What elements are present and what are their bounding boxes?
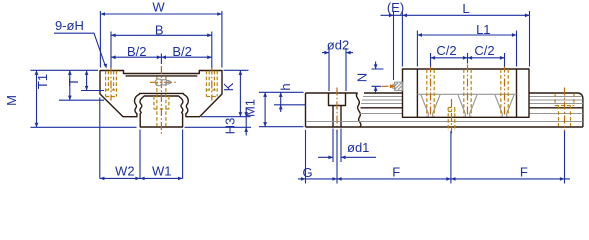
dimension L <box>402 1 529 67</box>
hole 3 centerline <box>504 65 506 117</box>
dimension T <box>66 70 104 90</box>
dimension T1 <box>35 70 104 100</box>
svg-text:G: G <box>302 165 312 180</box>
svg-text:(E): (E) <box>387 0 404 15</box>
label 9-oH with leader <box>54 18 107 69</box>
svg-text:N: N <box>355 73 370 82</box>
svg-text:F: F <box>520 165 528 180</box>
svg-text:W2: W2 <box>115 164 135 179</box>
dimension W (left view top) <box>100 0 221 68</box>
left wing hole centerline <box>110 67 112 101</box>
rail hole centerline (left view) <box>160 66 162 136</box>
svg-text:B/2: B/2 <box>172 44 192 59</box>
svg-text:K: K <box>221 82 236 91</box>
rail sectioned end (side view left) <box>306 93 358 127</box>
dimensions G F F (bottom) <box>298 130 570 184</box>
right wing hole centerline <box>211 67 213 101</box>
svg-text:ød1: ød1 <box>347 140 369 155</box>
dimension od1 <box>318 129 376 163</box>
grease nipple centerline horizontal (left view) <box>150 81 176 83</box>
dimension h <box>274 83 306 112</box>
dimension L1 <box>417 22 516 66</box>
rail mounting hole hidden lines (left view) <box>154 77 169 128</box>
dimension od2 <box>322 38 353 92</box>
svg-text:L1: L1 <box>476 22 490 37</box>
rail hole at right end (hidden) <box>555 88 574 134</box>
right wing bolt hole (hidden lines) <box>206 71 217 97</box>
svg-text:W: W <box>152 0 165 15</box>
ball guide funnel 1 (side view) <box>421 95 440 117</box>
dimensions B/2 B/2 <box>111 44 212 64</box>
block side view outline <box>403 69 530 117</box>
svg-text:C/2: C/2 <box>474 43 494 58</box>
rail hole under block (hidden) <box>448 99 455 134</box>
dimension M1 <box>243 92 304 126</box>
svg-text:H3: H3 <box>223 118 238 135</box>
ball guide funnel 2 <box>458 95 477 117</box>
dimension K (right of left view) <box>201 70 251 116</box>
svg-text:9-øH: 9-øH <box>55 18 84 33</box>
rail section hole centerline <box>336 88 338 134</box>
svg-text:M1: M1 <box>243 99 258 117</box>
svg-text:C/2: C/2 <box>436 43 456 58</box>
dimension (E) <box>381 0 405 80</box>
dimensions W2 W1 (left view bottom) <box>100 98 183 181</box>
hole 2 centerline <box>467 65 469 117</box>
svg-text:ød2: ød2 <box>327 38 349 53</box>
dimension N <box>355 62 384 95</box>
hole 1 centerline <box>430 65 432 117</box>
svg-text:B/2: B/2 <box>127 44 147 59</box>
svg-text:L: L <box>462 1 469 16</box>
block mounting hole 2 hidden lines <box>464 69 471 116</box>
dimension H3 <box>223 109 248 136</box>
block cross-section outline (left view carriage) <box>100 71 222 117</box>
svg-text:W1: W1 <box>152 164 172 179</box>
break line (freehand) <box>356 93 361 127</box>
rail cross-section (left view) <box>140 96 183 127</box>
svg-text:M: M <box>4 95 19 106</box>
grease nipple (left view, phantom gray) <box>155 79 170 86</box>
block mounting hole 1 hidden lines <box>427 69 434 116</box>
rail top edge seen in cutaway <box>417 93 516 95</box>
left wing bolt hole (hidden lines) <box>106 71 117 97</box>
end cap joint lines <box>417 69 516 117</box>
grease nipple pointer <box>382 84 396 88</box>
ball guide funnel 3 <box>495 95 514 117</box>
svg-text:T1: T1 <box>35 74 50 89</box>
grease nipple (side view) <box>393 82 403 90</box>
dimensions C/2 C/2 <box>431 43 505 66</box>
svg-text:F: F <box>392 165 400 180</box>
svg-text:h: h <box>278 83 293 90</box>
svg-text:T: T <box>66 78 81 86</box>
block mounting hole 3 hidden lines <box>501 69 508 116</box>
svg-text:B: B <box>155 22 164 37</box>
rail side view outline and grooves <box>306 93 583 127</box>
baseline extension (rail bottom, left view) <box>31 126 252 128</box>
dimension B <box>111 22 212 67</box>
dimension M (left side) <box>4 70 98 127</box>
